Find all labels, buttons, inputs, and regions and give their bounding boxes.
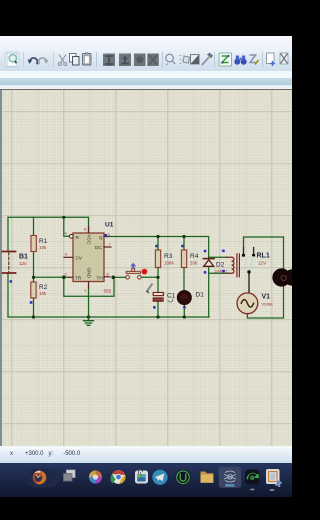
toolbar band bbox=[0, 48, 292, 71]
tool block2 (disabled dark) bbox=[147, 54, 159, 67]
svg-text:10k: 10k bbox=[39, 245, 47, 250]
tool block1 (disabled dark) bbox=[134, 54, 146, 67]
wire R3 branch bbox=[157, 237, 159, 318]
wire lamp branch bbox=[283, 237, 285, 269]
circuit svg bbox=[0, 89, 292, 446]
taskbar bbox=[0, 463, 292, 497]
taskbar folder icon bbox=[201, 472, 214, 483]
svg-text:10k: 10k bbox=[39, 291, 47, 296]
taskbar utorrent icon bbox=[176, 470, 191, 485]
wire R4-D1 branch bbox=[183, 237, 185, 318]
svg-text:RL1: RL1 bbox=[257, 253, 270, 260]
svg-text:R4: R4 bbox=[190, 253, 199, 260]
relay RL1 coil bbox=[227, 254, 239, 277]
svg-text:TR: TR bbox=[75, 275, 82, 280]
wire left battery branch bbox=[7, 217, 9, 317]
taskbar chrome icon bbox=[111, 470, 126, 484]
resistor R3 bbox=[155, 250, 174, 268]
bottom black bbox=[0, 497, 292, 520]
tool new-page bbox=[267, 53, 276, 66]
taskbar firefox running pill bbox=[26, 469, 59, 488]
svg-text:Q: Q bbox=[99, 235, 103, 240]
svg-text:100K: 100K bbox=[164, 261, 174, 266]
tool remove-page bbox=[280, 53, 288, 64]
tool place-terminal (disabled dark) bbox=[119, 54, 131, 67]
wire top rail bbox=[8, 217, 89, 232]
wire Q output rail bbox=[108, 237, 209, 258]
svg-text:6: 6 bbox=[107, 272, 110, 277]
taskbar active proteus app bbox=[219, 467, 241, 488]
svg-text:DC: DC bbox=[95, 245, 102, 250]
tool undo bbox=[28, 58, 38, 64]
taskbar ms-store icon bbox=[135, 470, 148, 484]
taskbar window tiles icon bbox=[64, 470, 76, 481]
resistor R2 bbox=[31, 282, 48, 298]
U1 pin numbers bbox=[65, 227, 112, 293]
tool snap-grid bbox=[181, 55, 190, 64]
wire D2 relay column bbox=[209, 257, 227, 317]
relay RL1 contact bbox=[242, 248, 255, 274]
op-amp U1 555 timer body bbox=[73, 222, 114, 294]
wire pin4 drop bbox=[64, 217, 70, 236]
wire R1-R2 branch bbox=[33, 217, 35, 317]
taskbar telegram icon bbox=[152, 470, 167, 485]
separator bbox=[162, 52, 164, 67]
top black bar bbox=[0, 0, 292, 36]
capacitor C1 bbox=[153, 292, 176, 302]
svg-text:8: 8 bbox=[84, 227, 87, 232]
svg-text:1: 1 bbox=[84, 288, 87, 293]
svg-text:12v: 12v bbox=[19, 261, 27, 266]
svg-text:U1: U1 bbox=[105, 222, 114, 229]
tool copy bbox=[70, 54, 80, 66]
battery B1 bbox=[3, 252, 29, 274]
svg-text:R3: R3 bbox=[164, 253, 173, 260]
diode D1 LED bbox=[177, 291, 204, 305]
pencil cursor bbox=[147, 284, 152, 292]
svg-text:V1: V1 bbox=[262, 294, 271, 301]
node junction dots bbox=[32, 216, 186, 319]
svg-text:330: 330 bbox=[190, 261, 198, 266]
separator bbox=[214, 52, 216, 67]
resistor R4 bbox=[181, 250, 198, 268]
U1 pin labels bbox=[75, 235, 103, 281]
svg-text:CV: CV bbox=[76, 255, 83, 260]
svg-text:R2: R2 bbox=[39, 284, 48, 291]
teal band bbox=[0, 78, 292, 85]
tool search binoculars bbox=[234, 56, 246, 65]
svg-text:VCC: VCC bbox=[87, 235, 92, 246]
wire TH to button bbox=[113, 276, 126, 278]
separator bbox=[96, 52, 98, 67]
button red actuator dot bbox=[141, 269, 147, 275]
svg-text:R1: R1 bbox=[39, 238, 48, 245]
svg-text:GND: GND bbox=[87, 268, 92, 279]
selection handles (blue squares) bbox=[10, 234, 225, 309]
U1 pin stubs bbox=[64, 227, 111, 288]
wire bottom rail bbox=[8, 316, 209, 318]
dark top line of canvas bbox=[0, 89, 292, 90]
wire relay contact feed bbox=[244, 237, 284, 248]
wire TR line bbox=[34, 276, 69, 278]
tool paste bbox=[83, 52, 92, 65]
wire TR-TH loop bbox=[64, 277, 114, 296]
svg-text:D2: D2 bbox=[216, 262, 225, 269]
U1 pin4 bubble bbox=[69, 234, 73, 238]
white strip under toolbar bbox=[0, 71, 292, 78]
svg-text:7: 7 bbox=[109, 242, 112, 247]
wire V1 loop bbox=[247, 286, 283, 318]
svg-text:2: 2 bbox=[65, 272, 68, 277]
resistor R1 bbox=[31, 236, 48, 252]
wire GND drop bbox=[88, 288, 90, 318]
tool hammer bbox=[202, 53, 213, 66]
svg-text:12V: 12V bbox=[258, 261, 267, 266]
diode D2 bbox=[203, 259, 227, 274]
wire button to R3 bbox=[142, 276, 159, 278]
taskbar copilot icon bbox=[89, 470, 102, 483]
lamp L1 bbox=[273, 269, 300, 286]
tool redo bbox=[39, 58, 49, 64]
tool cut scissors bbox=[58, 55, 66, 66]
svg-text:D1: D1 bbox=[196, 292, 205, 299]
canvas with grid bbox=[0, 90, 292, 446]
taskbar snip tool icon bbox=[266, 469, 282, 491]
separator bbox=[53, 52, 55, 67]
separator bbox=[23, 52, 25, 67]
tool wire-mode (selected green) bbox=[219, 53, 232, 66]
tool zoom-sheet button (selected) bbox=[5, 52, 19, 67]
taskbar firefox icon bbox=[33, 471, 47, 485]
svg-text:B1: B1 bbox=[19, 254, 28, 261]
menu band bbox=[0, 36, 292, 48]
separator bbox=[262, 52, 264, 67]
tool edit-sheet bbox=[191, 55, 200, 65]
taskbar idm icon bbox=[245, 470, 260, 491]
svg-text:5: 5 bbox=[65, 252, 68, 257]
tool place-junction (disabled dark) bbox=[103, 54, 115, 67]
svg-text:C1: C1 bbox=[167, 292, 176, 299]
tool zed-edit bbox=[250, 55, 259, 65]
svg-text:1N4007: 1N4007 bbox=[215, 270, 228, 274]
push button bbox=[126, 263, 141, 280]
canvas left dark edge bbox=[0, 90, 2, 463]
svg-text:4: 4 bbox=[65, 231, 68, 236]
svg-text:TH: TH bbox=[97, 275, 103, 280]
svg-text:555: 555 bbox=[104, 289, 112, 294]
tool zoom-area bbox=[166, 54, 176, 65]
source V1 VSINE bbox=[237, 293, 273, 314]
ground bbox=[84, 317, 94, 325]
wire contact to V1 bbox=[248, 273, 250, 294]
svg-text:VSINE: VSINE bbox=[262, 303, 274, 307]
status bar bbox=[0, 446, 292, 463]
